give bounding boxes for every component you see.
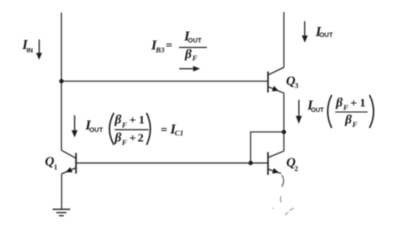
svg-text:+: +: [350, 95, 357, 109]
svg-text:F: F: [352, 120, 357, 129]
wire: Q2 collector vertical: [283, 132, 285, 151]
label I_OUT((bF+1)/(bF+2)) = I_C1 with down arrow: [72, 112, 184, 147]
svg-text:OUT: OUT: [188, 37, 202, 44]
svg-text:F: F: [122, 138, 127, 147]
svg-text:C1: C1: [175, 129, 184, 138]
label I_B3 = I_OUT / beta_F with right arrow: [150, 29, 207, 71]
svg-text:OUT: OUT: [89, 127, 103, 134]
svg-text:1: 1: [54, 162, 58, 171]
wire: top horizontal from input node to Q3 base: [61, 80, 268, 82]
svg-text:β: β: [344, 111, 352, 126]
wire: long base line Q1 to Q2: [76, 162, 268, 164]
transistor Q1: [61, 150, 76, 174]
svg-text:2: 2: [138, 130, 144, 144]
svg-text:OUT: OUT: [311, 107, 324, 114]
wire: right vertical output lead (Q3 collector): [283, 12, 285, 67]
svg-text:1: 1: [139, 113, 145, 127]
svg-text:+: +: [129, 130, 136, 144]
node B: Q3 emitter / Q2 collector dot: [282, 130, 286, 134]
svg-text:=: =: [161, 123, 168, 137]
label I_IN with down arrow: [21, 38, 42, 60]
wire: L-shaped feedback from node to base line: [251, 132, 284, 163]
faint remnant: diagonal dashes: [285, 208, 294, 215]
faint remnant: small arc: [280, 196, 281, 202]
svg-text:OUT: OUT: [319, 32, 333, 39]
label I_OUT with down arrow (top right): [302, 21, 333, 42]
faint remnant: curved emitter mark below Q2: [282, 175, 284, 187]
svg-text:β: β: [335, 94, 343, 109]
label I_OUT((bF+1)/bF) with down arrow (right): [296, 94, 374, 129]
svg-text:1: 1: [360, 95, 366, 109]
node A: input node dot: [59, 79, 63, 83]
svg-text:F: F: [192, 54, 197, 63]
svg-text:β: β: [114, 129, 122, 144]
ground: [53, 209, 71, 215]
svg-text:β: β: [184, 46, 192, 61]
wire: Q3 emitter vertical down to node: [283, 93, 285, 132]
node C: base line junction dot: [248, 161, 252, 165]
svg-text:2: 2: [294, 164, 298, 173]
transistor Q3: [268, 67, 284, 93]
wire: Q1 emitter vertical to ground: [61, 174, 63, 210]
svg-text:=: =: [166, 38, 173, 52]
faint remnant: tiny speck: [272, 208, 275, 210]
svg-text:B3: B3: [155, 45, 165, 54]
svg-text:F: F: [122, 120, 127, 129]
transistor Q2: [268, 151, 284, 175]
svg-text:3: 3: [295, 81, 299, 90]
svg-text:IN: IN: [27, 48, 34, 55]
svg-text:β: β: [114, 112, 122, 127]
svg-text:+: +: [129, 113, 136, 127]
wire: left vertical input lead: [60, 13, 62, 151]
